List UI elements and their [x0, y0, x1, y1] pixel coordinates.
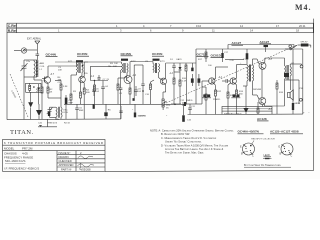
component reference table row R	[7, 28, 313, 33]
brand TITAN	[10, 129, 34, 136]
resistor R8	[150, 80, 155, 104]
svg-text:COIL: COIL	[40, 66, 46, 68]
aerial coil value text	[40, 62, 46, 71]
AGC bypass cap C5	[75, 104, 79, 119]
title block box	[3, 140, 106, 172]
transistor T3 OC45N 2nd IF	[124, 76, 132, 84]
svg-text:AC127: AC127	[260, 40, 270, 44]
right border wire	[302, 49, 304, 114]
texts under left rail	[38, 122, 71, 124]
speaker terminal lower	[299, 98, 302, 101]
output emitters chain wire	[261, 69, 263, 106]
svg-text:D· VOLTAGES TAKEN WITH A 1000: D· VOLTAGES TAKEN WITH A 1000 Ω/V METER,…	[161, 143, 229, 147]
wire drop x120.7	[120, 70, 122, 88]
bias divider resistor R13	[227, 83, 231, 114]
svg-text:.04: .04	[138, 91, 142, 93]
svg-text:BATTERY LEADS: BATTERY LEADS	[224, 113, 242, 116]
svg-text:PART Nº: PART Nº	[61, 167, 72, 171]
driver transformer TR1	[247, 65, 254, 82]
svg-text:8MF: 8MF	[69, 103, 74, 105]
svg-text:18: 18	[296, 28, 299, 32]
svg-text:I.F. FREQUENCY 455KC/S: I.F. FREQUENCY 455KC/S	[4, 167, 39, 171]
svg-text:+: +	[166, 115, 168, 117]
svg-text:9: 9	[182, 28, 184, 32]
oscillator coil L2	[56, 107, 62, 118]
battery plug P1	[298, 44, 311, 48]
svg-text:SPK 9V: SPK 9V	[301, 41, 309, 43]
wire aerial tank top	[24, 59, 37, 61]
supply rail mid right	[196, 49, 303, 104]
decoupling resistor R17	[205, 49, 207, 62]
svg-text:10K: 10K	[114, 63, 118, 65]
neutralizing wire loop	[91, 66, 122, 80]
T4 emitter to volume	[163, 85, 166, 99]
label OC44N underline	[46, 56, 58, 58]
electrolytic C17	[221, 49, 223, 62]
svg-text:E: E	[279, 146, 281, 149]
decoupling capacitor C8	[101, 81, 105, 105]
svg-text:-1.2: -1.2	[169, 73, 174, 75]
driver texts	[230, 60, 243, 65]
svg-text:.04: .04	[105, 86, 109, 88]
svg-text:ISSUE Nº: ISSUE Nº	[59, 151, 71, 155]
electrolytic C4	[65, 98, 68, 120]
wire coil tap to base T1	[34, 77, 42, 80]
wire T6 collector	[237, 65, 247, 79]
svg-text:14: 14	[250, 28, 253, 32]
svg-text:EXT. AERIAL: EXT. AERIAL	[27, 38, 42, 41]
bias network box wires	[26, 83, 42, 92]
svg-text:+: +	[132, 109, 134, 111]
svg-text:C· MEASUREMENTS TAKEN ON A.V.O: C· MEASUREMENTS TAKEN ON A.V.O. VOLTMETE…	[161, 136, 217, 140]
wire IFT1 primary bottom	[71, 73, 77, 93]
svg-text:TRIM 4O5: TRIM 4O5	[47, 123, 58, 125]
tuning gang capacitor C2a	[21, 60, 28, 77]
ground triangle T3	[133, 98, 135, 101]
svg-text:D1: D1	[170, 59, 174, 61]
svg-text:THE DETECTOR STAGE. MAX. GAI: THE DETECTOR STAGE. MAX. GAIN.	[165, 151, 204, 155]
svg-text:2: 2	[80, 151, 82, 155]
transistor T2 OC45N 1st IF	[79, 76, 86, 83]
pinout title underline	[238, 133, 264, 135]
label underline	[257, 120, 269, 122]
svg-text:4: 4	[143, 24, 145, 28]
pinout title underline	[270, 133, 303, 135]
thermistor R15	[257, 102, 259, 114]
svg-text:560: 560	[239, 94, 243, 96]
electrolytic on bus	[93, 105, 95, 109]
transistor T1 OC44N converter	[42, 77, 51, 84]
decoupling blob C18	[191, 63, 193, 71]
gang link dashed	[10, 74, 28, 117]
table tick texts	[58, 24, 306, 33]
svg-text:-1.4: -1.4	[132, 74, 137, 77]
svg-text:+: +	[303, 112, 305, 115]
wire T1 collector to IFT1	[48, 64, 77, 77]
wire osc tank	[42, 98, 61, 119]
svg-text:L1: L1	[40, 69, 43, 71]
svg-text:25: 25	[107, 79, 110, 81]
wire driver secondary to output bases	[253, 59, 260, 100]
label 4/057 battery	[257, 117, 267, 121]
ground triangle bias network	[28, 92, 33, 119]
svg-text:6 TRANSISTOR PORTABLE BROADCAS: 6 TRANSISTOR PORTABLE BROADCAST RECEIVER	[4, 141, 103, 145]
resistor R5	[80, 92, 82, 104]
svg-text:5K: 5K	[166, 108, 169, 110]
osc coil text	[63, 110, 69, 115]
IF transformer IFT2	[121, 59, 128, 73]
svg-text:IFT2: IFT2	[131, 61, 136, 63]
svg-text:APPROVED: APPROVED	[59, 163, 74, 167]
T2 emitter resistor R4	[83, 83, 85, 119]
C5 value	[79, 108, 84, 113]
bypass capacitor C6	[92, 86, 96, 96]
lead symbol	[263, 157, 272, 159]
driver transformer top blob	[225, 49, 248, 60]
svg-text:20 21: 20 21	[299, 24, 306, 28]
bias resistor R11	[202, 87, 207, 114]
svg-text:OC81D: OC81D	[211, 54, 222, 58]
voltage spot texts	[50, 59, 273, 111]
svg-text:C: C	[291, 155, 293, 158]
C12 value	[180, 100, 193, 102]
main electrolytic C15	[182, 104, 185, 122]
svg-text:-0.7: -0.7	[50, 74, 55, 76]
oscillator tuning capacitor C2b	[47, 107, 53, 117]
on-off switch dashed link	[166, 45, 297, 103]
svg-text:BOTTOM VIEW OF TRANSISTORS: BOTTOM VIEW OF TRANSISTORS	[244, 163, 281, 167]
svg-text:OC71N: OC71N	[197, 52, 208, 56]
svg-text:IFT1: IFT1	[68, 61, 73, 63]
ferrite aerial coil L1	[34, 60, 38, 77]
speaker text	[295, 88, 303, 105]
IF filter capacitor C13	[172, 63, 180, 72]
C9 value	[138, 89, 142, 94]
thermistor block	[29, 83, 35, 92]
svg-text:208: 208	[58, 70, 62, 72]
svg-text:DRIVER: DRIVER	[253, 89, 262, 91]
svg-text:AC128: AC128	[257, 117, 267, 121]
scattered value texts	[26, 52, 301, 121]
notes text	[150, 129, 234, 155]
svg-text:1: 1	[58, 28, 60, 32]
second neutralizing loop	[134, 65, 143, 100]
wire IFT3 secondary to T4 base	[159, 73, 162, 81]
svg-text:R2 1K: R2 1K	[64, 122, 71, 124]
AGC resistor R3	[70, 92, 72, 104]
svg-text:PR7.2M: PR7.2M	[22, 147, 33, 151]
T6 emitter resistor R14	[236, 85, 238, 115]
wire driver primary	[243, 59, 247, 86]
pinout title OC44N	[238, 130, 259, 134]
svg-text:8MFD: 8MFD	[187, 100, 193, 102]
svg-text:455: 455	[84, 73, 88, 75]
svg-text:25MFD: 25MFD	[213, 99, 221, 101]
svg-text:17: 17	[276, 24, 279, 28]
svg-text:2 GANG: 2 GANG	[10, 90, 17, 99]
svg-text:‘RED SPOT’ COLLECTOR: ‘RED SPOT’ COLLECTOR	[251, 139, 275, 141]
label underline	[260, 43, 272, 45]
wire to T5 base	[196, 81, 210, 104]
resistor R5a decoupler	[94, 81, 96, 105]
R3a text	[63, 86, 68, 88]
label OC45N second IF	[121, 52, 132, 56]
svg-text:R16: R16	[279, 92, 284, 94]
caption underline	[244, 166, 291, 168]
wires output collectors to OT	[265, 58, 285, 106]
electrolytic C10	[134, 104, 136, 117]
red spot arrow	[252, 141, 255, 145]
T3 emitter resistor R7	[129, 83, 131, 105]
svg-text:.04: .04	[96, 91, 100, 93]
svg-text:C16: C16	[296, 103, 301, 105]
trimmer stub below rail	[38, 119, 57, 127]
svg-text:3.9K: 3.9K	[63, 86, 68, 88]
feedback resistor R3a	[55, 81, 62, 99]
bottom view caption	[244, 163, 281, 167]
title block sub-table text	[59, 151, 91, 172]
svg-text:2.2K: 2.2K	[182, 81, 187, 83]
bypass capacitor C9	[134, 86, 138, 96]
feedback resistor R16	[276, 80, 278, 114]
sheet number M4	[295, 3, 312, 12]
label OC44N	[46, 53, 57, 57]
coupling capacitor C1	[36, 50, 40, 60]
ext aerial label	[27, 38, 42, 41]
label OC81 pre-driver	[211, 54, 222, 58]
bottom rail right	[188, 113, 303, 115]
neutralizing capacitor C7	[94, 75, 101, 81]
svg-text:C15: C15	[187, 119, 192, 121]
svg-text:MODEL: MODEL	[4, 147, 15, 151]
svg-text:-1.4: -1.4	[90, 75, 95, 78]
sheet right border	[313, 19, 315, 171]
svg-text:DRAWN: DRAWN	[59, 155, 69, 159]
svg-text:10K: 10K	[113, 66, 117, 68]
R4 value	[86, 90, 90, 95]
label underline	[232, 44, 244, 46]
electrolytic C16	[292, 49, 294, 114]
ground triangle left	[36, 104, 42, 119]
wire OT secondary to speaker	[285, 64, 302, 104]
base decoupling line T2	[80, 83, 82, 93]
svg-text:−: −	[308, 112, 310, 115]
transistor T4 detector	[160, 78, 166, 84]
svg-text:R.Ref: R.Ref	[8, 29, 18, 33]
svg-text:R17: R17	[198, 59, 203, 61]
ground triangle mid	[104, 104, 111, 119]
svg-text:540–1600 KC/S: 540–1600 KC/S	[5, 159, 25, 163]
svg-text:OC44N: OC44N	[46, 53, 57, 57]
AGC bus wire	[64, 104, 186, 106]
label underline	[211, 57, 223, 59]
svg-text:OC45N: OC45N	[121, 52, 132, 56]
IF transformer IFT1	[76, 60, 83, 73]
extra stage texts	[58, 66, 118, 84]
label AC127 upper	[232, 41, 242, 45]
svg-text:ACROSS THE BATTERY LEADS. THE: ACROSS THE BATTERY LEADS. THE 2ND I.F. S…	[165, 147, 224, 151]
resistor R10	[179, 76, 181, 104]
svg-text:8MF: 8MF	[79, 110, 84, 112]
svg-text:6: 6	[150, 28, 152, 32]
wire T2 collector to IFT2	[84, 62, 121, 77]
left border wire	[6, 33, 8, 120]
svg-text:C2b: C2b	[38, 123, 43, 125]
sheet bottom border	[105, 170, 314, 171]
label underline	[77, 55, 89, 57]
T5 collector wire	[216, 67, 229, 79]
detector diode D1	[178, 63, 181, 76]
pinout circle OC44N	[243, 143, 255, 155]
svg-text:PM: PM	[300, 88, 303, 90]
T5 emitter resistor R12	[215, 85, 217, 114]
svg-text:11: 11	[212, 28, 215, 32]
svg-text:C: C	[252, 155, 254, 158]
pinout title AC125	[270, 130, 299, 134]
label underline	[152, 55, 164, 57]
aerial jack J1	[21, 48, 26, 53]
title block text	[4, 141, 103, 170]
svg-text:14: 14	[240, 24, 243, 28]
svg-text:-4.2: -4.2	[218, 76, 223, 79]
transistor T6 pre-driver	[230, 78, 237, 85]
coupling capacitor C3	[65, 95, 67, 98]
coupling electrolytic C12	[171, 102, 196, 106]
svg-text:AER: AER	[40, 62, 45, 65]
svg-text:C2a: C2a	[26, 61, 31, 63]
svg-text:100: 100	[208, 65, 212, 67]
loom drops	[222, 111, 272, 114]
svg-text:M4.: M4.	[295, 3, 312, 12]
svg-text:TITAN.: TITAN.	[10, 129, 34, 136]
wire IFT1 secondary to T2 base	[81, 73, 82, 78]
left rail end vertical	[119, 106, 122, 119]
svg-text:B· RESISTORS ±10% ½W.: B· RESISTORS ±10% ½W.	[161, 132, 190, 136]
svg-text:C.Ref: C.Ref	[8, 24, 18, 28]
svg-text:OC44N–45/57N: OC44N–45/57N	[238, 130, 259, 134]
svg-text:C11: C11	[191, 106, 196, 108]
pinout circle AC125	[281, 143, 293, 155]
svg-text:9 10: 9 10	[196, 24, 202, 28]
gang label	[10, 90, 17, 99]
filter capacitor C11	[188, 104, 192, 115]
label underline	[121, 55, 133, 57]
capacitor C10a	[141, 84, 144, 104]
svg-text:2.2K: 2.2K	[230, 60, 235, 62]
C8 text	[105, 86, 109, 88]
svg-text:E: E	[240, 146, 242, 149]
emitter resistor R2	[47, 83, 49, 98]
wire aerial tank bottom	[24, 77, 37, 119]
AGC feed resistor R9	[185, 63, 187, 104]
wire IFT2 secondary to T3 base	[125, 73, 128, 79]
svg-text:C8: C8	[119, 93, 123, 95]
svg-text:CHECKED: CHECKED	[59, 159, 72, 163]
capacitor C8a	[119, 88, 122, 119]
svg-text:4/05/268: 4/05/268	[80, 167, 91, 171]
svg-text:C12: C12	[180, 100, 185, 102]
transistor T5 audio driver	[209, 78, 216, 85]
signatures	[78, 156, 95, 170]
label OC45N first IF	[77, 52, 88, 56]
ground triangle right	[244, 86, 249, 114]
pinout OC44N pin letters	[240, 146, 254, 158]
red spot note	[251, 139, 275, 141]
bottom rail left	[7, 118, 121, 121]
label AC127 lower	[260, 40, 270, 44]
output transformer TR2	[284, 65, 291, 80]
diode D2	[37, 84, 40, 104]
volume text	[166, 105, 171, 110]
capacitor blob under AC127	[264, 45, 269, 52]
transistor T7 output upper	[259, 62, 266, 69]
wire jack to antenna	[14, 49, 37, 52]
label OC71N driver	[197, 52, 208, 56]
C6 value	[96, 89, 100, 94]
component reference table row C	[7, 23, 313, 28]
C7 text	[103, 79, 110, 81]
battery cable loom	[222, 107, 272, 112]
label OC45N detector	[152, 52, 163, 56]
mid supply rail wire	[48, 62, 88, 66]
svg-text:R6: R6	[108, 109, 112, 111]
electrolytic pair before driver	[191, 74, 200, 86]
interstage capacitor C14	[222, 79, 231, 83]
R2 value	[50, 89, 54, 94]
label underline	[197, 55, 209, 57]
base bias resistor R6	[117, 78, 125, 104]
svg-text:NOTE: A· CAPACITORS 20% UNLES: NOTE: A· CAPACITORS 20% UNLESS OTHERWISE…	[150, 129, 234, 133]
svg-text:AC125–AC127 4O58: AC125–AC127 4O58	[270, 130, 299, 134]
svg-text:R3: R3	[73, 91, 77, 93]
antenna	[35, 41, 40, 50]
wire T4 collector up	[166, 63, 196, 78]
IF transformer IFT3	[153, 59, 160, 73]
wire T3 collector to IFT3	[130, 62, 153, 77]
table row labels	[8, 24, 18, 33]
resistor R1 value	[36, 89, 40, 94]
transistor T8 output lower	[259, 98, 266, 105]
svg-text:1: 1	[116, 24, 118, 28]
plus minus battery marks	[303, 112, 310, 115]
svg-text:-8.8: -8.8	[268, 59, 273, 61]
audio load resistor R10a	[173, 72, 175, 104]
svg-text:3: 3	[120, 28, 122, 32]
svg-text:AC127: AC127	[232, 41, 242, 45]
svg-text:680: 680	[86, 92, 90, 94]
svg-text:OC45N: OC45N	[77, 52, 88, 56]
svg-text:OA70: OA70	[176, 58, 182, 61]
upper bus wire right	[228, 45, 294, 50]
svg-text:C10: C10	[145, 94, 150, 96]
svg-text:1K: 1K	[50, 92, 53, 94]
svg-text:R12: R12	[217, 91, 222, 93]
resistor R1 base bias	[41, 80, 43, 98]
speaker LS1	[288, 90, 294, 100]
emitter caps row T5	[202, 94, 240, 101]
battery text	[301, 41, 309, 43]
svg-text:7: 7	[170, 24, 172, 28]
svg-text:UNDER ‘NO SIGNAL’ CONDITIONS.: UNDER ‘NO SIGNAL’ CONDITIONS.	[165, 140, 202, 144]
svg-text:100MFD: 100MFD	[138, 115, 147, 117]
svg-text:C17: C17	[224, 52, 229, 54]
svg-text:OC45N: OC45N	[152, 52, 163, 56]
speaker terminal upper	[300, 65, 303, 68]
pinout AC125 pin letters	[279, 146, 293, 158]
svg-text:IFT3: IFT3	[160, 61, 165, 63]
switch S1	[285, 45, 297, 50]
volume control VR1	[162, 99, 167, 110]
